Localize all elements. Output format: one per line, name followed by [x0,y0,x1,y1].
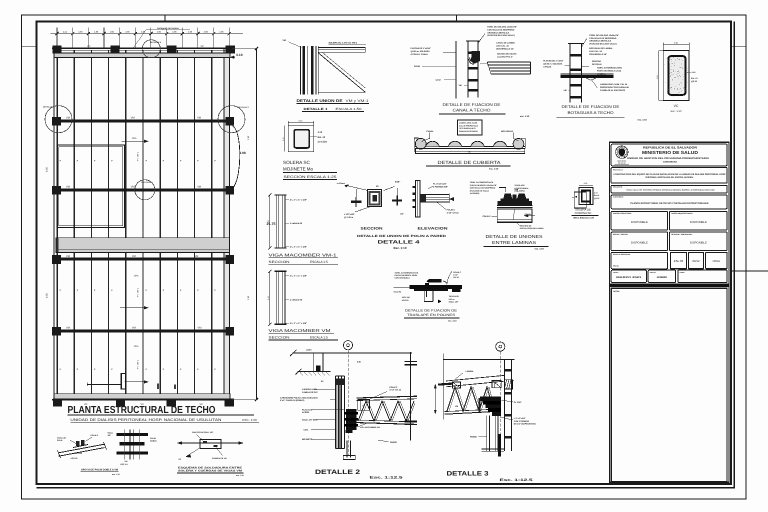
slope arrow and 10% upper [121,137,148,143]
svg-text:@0.60 m. SOLDADA: @0.60 m. SOLDADA [543,63,563,66]
svg-text:ESCALA 1:5: ESCALA 1:5 [310,260,328,264]
svg-text:CONTENIDO:: CONTENIDO: [613,196,624,199]
svg-text:@ 0.15m: @ 0.15m [318,141,327,144]
ubicacion thin box [611,185,727,193]
svg-text:SENTIDO DE: SENTIDO DE [520,224,532,227]
svg-text:POLIN: POLIN [414,65,421,68]
svg-text:ACERO: ACERO [302,411,310,414]
detalle 3 connection blob [479,396,502,415]
svg-text:MOJINETE Mo: MOJINETE Mo [283,167,313,172]
svg-text:CON 2 PERNOS: CON 2 PERNOS [514,420,530,423]
svg-text:1/4": 1/4" [400,212,404,215]
svg-text:SECCION: SECCION [361,226,384,230]
svg-text:0.15: 0.15 [299,119,303,122]
plan bottom small duct detail [87,373,176,389]
svg-text:PUNTA DE BROCA 12x24: PUNTA DE BROCA 12x24 [597,69,622,72]
detalle union VM y VM-1 drawing [301,46,366,94]
column squares beam row 3 [52,255,234,264]
detalle 3 roof slope lines [438,375,505,386]
detalle 3 notes [455,370,536,439]
detalle 3 axis line [499,351,501,455]
esquema soldadura title [177,466,244,477]
svg-text:4 PERNOS 3/8": 4 PERNOS 3/8" [433,186,448,189]
uniones laminas titles [484,234,549,251]
svg-text:CAL 26 PREPINTADA: CAL 26 PREPINTADA [459,124,479,127]
esquema soldadura drawing [177,435,243,458]
svg-text:DETALLE 5: DETALLE 5 [150,41,162,44]
svg-text:4"x2" CHAPA 16 (DOBLE): 4"x2" CHAPA 16 (DOBLE) [280,399,305,402]
svg-text:SOLERA SC a 2% min VM-1: SOLERA SC a 2% min VM-1 [329,42,358,45]
svg-text:PLANTA ESTRUCTURAL DE TECHO Y: PLANTA ESTRUCTURAL DE TECHO Y DETALLES E… [631,202,709,205]
svg-text:PUNTA DE BROCA 12x24x7/8": PUNTA DE BROCA 12x24x7/8" [470,184,497,187]
detalle 2 left parapet [296,353,331,375]
svg-text:ESL.03: ESL.03 [674,259,684,263]
svg-text:TORN. DE GOLOSO 12x24x7/8": TORN. DE GOLOSO 12x24x7/8" [589,34,619,37]
svg-text:CON ARANDELA: CON ARANDELA [395,277,411,280]
svg-text:ESCALA 1:50: ESCALA 1:50 [336,107,362,111]
fold mark top [455,15,457,23]
svg-text:VM: VM [125,460,128,463]
svg-text:SOLERA SC: SOLERA SC [283,160,311,165]
plan top dimension line [51,32,244,35]
uniones laminas top-right note [514,184,529,193]
esquema soldadura notes [179,431,227,461]
svg-text:0.25: 0.25 [674,41,678,44]
svg-text:0.19: 0.19 [236,53,243,57]
botaguas lower right note [592,81,629,93]
svg-text:PREPINTADA TIPO DURALUM: PREPINTADA TIPO DURALUM [600,86,629,89]
svg-text:BOTAGUAS A TECHO: BOTAGUAS A TECHO [568,110,614,115]
detalle 4 titles [357,234,447,250]
svg-text:REPUBLICA DE EL SALVADOR: REPUBLICA DE EL SALVADOR [643,146,698,150]
svg-text:APOYO: APOYO [71,457,78,460]
svg-text:COMUNIDAD: COMUNIDAD [663,161,677,164]
svg-text:NOTAS:: NOTAS: [613,290,620,293]
svg-text:LOSA: LOSA [306,349,312,352]
svg-text:(FIJACION EN CADA VALLE): (FIJACION EN CADA VALLE) [589,43,617,46]
svg-text:DETALLE DE FIJACION DE: DETALLE DE FIJACION DE [443,102,501,107]
svg-text:CANAL A TECHO: CANAL A TECHO [453,107,491,112]
VM beam row 1 [56,119,228,122]
svg-text:4"x2" CH 16: 4"x2" CH 16 [389,389,401,392]
svg-text:CON SELLO DE NEOPRENO: CON SELLO DE NEOPRENO [470,187,496,190]
svg-text:DE LAMINA: DE LAMINA [514,190,525,193]
svg-text:L 1/2"x1/8": L 1/2"x1/8" [344,213,355,216]
fold mark right mid [732,270,768,272]
svg-text:APOYO DE POLIN DOBLE A VM: APOYO DE POLIN DOBLE A VM [81,468,118,471]
svg-text:VM: VM [132,255,136,258]
svg-text:Est.#2: Est.#2 [594,194,599,197]
detalle 4 seccion cross left [351,197,362,207]
svg-text:LAMINA: LAMINA [466,370,474,373]
responsables row 1 [611,211,727,230]
svg-text:CARGADERO POLIN C ENCAJUELADO: CARGADERO POLIN C ENCAJUELADO [280,396,318,399]
svg-text:SOLERA Y CUERDAS DE VIGAS VM: SOLERA Y CUERDAS DE VIGAS VM [178,470,242,473]
detalle 2 bolt plate cluster [344,409,358,430]
title block separator bar [609,284,729,287]
svg-text:A POLIN: A POLIN [543,66,552,69]
solera SC titles [283,160,337,179]
svg-text:POLIN C: POLIN C [389,386,398,389]
ministry logo [615,146,630,164]
VC column section [663,50,689,100]
svg-text:2 L 1" x 1" x 1/8": 2 L 1" x 1" x 1/8" [290,322,307,325]
svg-text:@0.15: @0.15 [691,80,698,83]
svg-text:PL 4"x4"x1/4": PL 4"x4"x1/4" [433,183,447,186]
svg-text:DETALLE 1: DETALLE 1 [304,107,328,111]
svg-text:SIMILAR EXISTENTE: SIMILAR EXISTENTE [459,130,479,133]
svg-text:0.20: 0.20 [282,137,285,141]
inner room rectangle [57,145,125,228]
svg-text:SECC ESCALA 1:25: SECC ESCALA 1:25 [573,217,594,220]
svg-text:INSTALACION DE LAMINA: INSTALACION DE LAMINA [520,227,544,230]
svg-text:DETALLE UNION DE: DETALLE UNION DE [297,99,344,103]
svg-text:DETALLE 3: DETALLE 3 [447,470,490,477]
svg-text:O SIMILAR AL EXISTENTE: O SIMILAR AL EXISTENTE [600,89,626,92]
svg-text:LLUVIAS PVC 4": LLUVIAS PVC 4" [497,55,513,58]
proyecto box [611,168,727,184]
botaguas leader lines [564,39,587,93]
solera SC mojinete section [282,119,314,151]
detalle 3 title [447,470,533,482]
svg-text:TIPO DURALUM O: TIPO DURALUM O [459,127,476,130]
uniones laminas side notes [483,213,545,230]
dim 0.19 top right [230,53,242,58]
svg-text:DOBLE: DOBLE [150,440,157,443]
viga VM titles [269,328,339,340]
botaguas right notes [582,60,623,75]
svg-text:HOJA: HOJA [713,259,721,263]
svg-text:DISPONIBLE: DISPONIBLE [690,241,707,244]
svg-text:0.15: 0.15 [584,182,588,185]
viga VM leader notes [285,275,307,325]
svg-text:esc. 1:10: esc. 1:10 [520,115,530,118]
svg-text:Esc. 1:12.5: Esc. 1:12.5 [500,478,533,482]
detalle 3 mid box [492,380,501,387]
detalle 4 seccion cross right [392,196,402,206]
botaguas flashing bar [560,74,613,81]
plan top edge beam [52,48,232,57]
VM beam row 2 [56,188,228,191]
svg-text:NOMBRE: NOMBRE [657,276,668,279]
svg-text:DETALLE DE FIJACION DE: DETALLE DE FIJACION DE [562,104,620,109]
svg-text:esc. 1:10: esc. 1:10 [489,168,499,171]
svg-text:esc. 1:10: esc. 1:10 [535,248,545,251]
svg-text:PARED: PARED [470,436,477,439]
traslape notes [394,271,462,303]
detalle 2 title [315,469,403,480]
detalle 2 top slab line [290,350,412,356]
traslape titles [404,309,460,323]
svg-text:CUERDA DE VM: CUERDA DE VM [212,457,227,460]
column squares bottom edge [53,399,234,407]
solera SC side notes [309,131,327,144]
svg-text:VIGA MACOMBER VM: VIGA MACOMBER VM [360,426,380,429]
svg-text:VM: VM [197,117,201,120]
svg-text:4"x2" CH 16: 4"x2" CH 16 [447,212,460,215]
svg-text:TRASLAPE: TRASLAPE [514,184,525,187]
VC labels top edge [87,45,204,48]
canal a techo ladder [456,41,480,98]
solera sc small notes [594,192,599,200]
svg-text:@ 0.40 m: @ 0.40 m [344,216,353,219]
svg-text:esc. 1:10: esc. 1:10 [236,474,244,477]
svg-text:4 #3: 4 #3 [318,131,323,134]
svg-text:APOYO: APOYO [402,299,409,302]
svg-text:2 L 1" x 1" x 1/8": 2 L 1" x 1" x 1/8" [290,198,307,201]
traslape en polines drawing [394,271,463,303]
svg-text:DESARROLLO 18": DESARROLLO 18" [589,53,607,56]
svg-text:esc. 1:10: esc. 1:10 [112,473,120,476]
responsables row 2 [611,232,727,251]
detalle 3 callout circle [496,342,505,351]
svg-text:VIGA VM: VIGA VM [394,291,402,294]
VC titles [671,104,682,113]
detalle 3 lower column [481,416,503,457]
svg-text:VM: VM [131,117,135,120]
VM beam row 4 [56,329,228,332]
svg-text:VM: VM [194,255,198,258]
fold mark right [732,45,747,47]
plan left border wall [54,48,58,401]
svg-text:botaguas de lamina: botaguas de lamina [157,27,179,30]
svg-text:CANAL DE LAMINA: CANAL DE LAMINA [496,42,515,45]
svg-text:P = VM-1: P = VM-1 [137,287,140,297]
detalle 3 left end box [452,382,460,388]
svg-text:L 2"x2"x1/4": L 2"x2"x1/4" [514,417,526,420]
detalle 4 elevacion beam [420,193,454,203]
svg-text:VC: VC [87,45,91,48]
detalle 2 callout circle [343,341,352,350]
cubierta bottom band [416,149,525,154]
svg-text:PUNTOS DE SOLD. 1/8": PUNTOS DE SOLD. 1/8" [192,431,213,434]
svg-text:CORONA SC: CORONA SC [575,211,592,215]
cubierta side labels [422,130,519,142]
plan right border wall [224,48,230,401]
detalle uniones entre laminas drawing [497,194,533,223]
svg-text:6.05: 6.05 [45,293,48,298]
canal top right note [479,26,518,43]
svg-text:ALTERNO): ALTERNO) [470,192,480,195]
plan top extension lines [57,28,229,49]
svg-text:DE 1/2" (EXPANSIVOS): DE 1/2" (EXPANSIVOS) [514,423,536,426]
detalle 2 truss [357,396,418,424]
svg-text:@0.60 m. SOLDADA: @0.60 m. SOLDADA [411,50,431,53]
svg-text:PROYECTO:: PROYECTO: [613,168,623,171]
botaguas ladder [568,44,584,103]
uniones laminas top-left note [470,181,506,195]
svg-text:VM: VM [459,84,462,87]
plan top dimension texts [63,31,224,34]
detalle 2 main column [336,376,345,449]
solera sc small titles [572,207,599,219]
botaguas top right note [589,34,619,56]
svg-text:PLATINA DE 1"x3/16": PLATINA DE 1"x3/16" [411,47,431,50]
svg-text:DETALLE DE FIJACION DE: DETALLE DE FIJACION DE [405,309,457,313]
column squares beam row 4 [52,327,234,336]
svg-text:DETALLE 2: DETALLE 2 [238,106,250,109]
svg-text:CANAL: CANAL [426,130,434,133]
contenido box [611,195,727,209]
detail callout circle top [142,40,162,58]
svg-text:POLIN: POLIN [150,437,156,440]
detalle 3 left dim line [434,384,436,414]
plan title [68,405,255,416]
svg-text:SOLD. 1/8": SOLD. 1/8" [449,301,459,304]
escala fecha hoja row [611,252,727,268]
P labels on purlins [60,160,217,372]
svg-text:POLIN C: POLIN C [447,209,456,212]
svg-text:DISPONIBLE: DISPONIBLE [631,241,648,244]
detalle 3 right ladder [504,360,513,451]
svg-text:DETALLE DE UNION DE POLIN A PA: DETALLE DE UNION DE POLIN A PARED [357,234,447,238]
svg-text:SECCION ESCALA 1:25: SECCION ESCALA 1:25 [284,175,337,179]
svg-text:VIGA VM: VIGA VM [74,452,82,455]
svg-text:MINISTERIO DE SALUD: MINISTERIO DE SALUD [642,150,698,155]
svg-text:SOLD.: SOLD. [57,439,63,442]
canal right notes [496,42,517,59]
detail callout circle right [218,106,250,133]
detalle 3 truss zigzag [445,387,495,414]
column squares beam row 1 [52,117,234,126]
column squares beam row 2 [52,186,234,204]
svg-text:PLACA DE: PLACA DE [302,408,313,411]
svg-text:ESC 1:5: ESC 1:5 [121,463,128,466]
fold mark top left [164,15,166,23]
svg-text:DESARROLLO 24": DESARROLLO 24" [496,47,514,50]
svg-text:VM: VM [66,327,70,330]
detail callout circle left [43,106,72,133]
svg-text:DISPONIBLE: DISPONIBLE [631,221,648,224]
svg-text:VM: VM [564,89,567,92]
dim bracket 3.98 right side [233,126,246,189]
svg-text:VC: VC [674,104,679,108]
svg-text:P = VM-1: P = VM-1 [137,359,140,369]
svg-text:CON SELLO DE NEOPRENO: CON SELLO DE NEOPRENO [487,28,514,31]
svg-text:TRASLAPE: TRASLAPE [449,295,460,298]
svg-text:VM y VM-1: VM y VM-1 [346,99,369,103]
svg-text:4 #3: 4 #3 [594,192,598,195]
detalle 3 top line [443,354,514,420]
notas box [611,288,727,481]
svg-text:TRASLAPE EN POLINES: TRASLAPE EN POLINES [407,313,455,317]
svg-text:DISPONIBLE: DISPONIBLE [690,221,707,224]
plan subtitle [70,418,259,423]
svg-text:DETALLE 4: DETALLE 4 [378,239,421,245]
VC labels bottom edge [84,403,203,406]
svg-text:5/16": 5/16" [395,181,400,184]
plan bottom edge beam [52,394,232,400]
svg-text:VM: VM [132,327,136,330]
soldadura polin notes [108,431,158,466]
canal left note [411,47,457,56]
title block header box [611,144,727,166]
svg-text:BAJADA DE AGUAS: BAJADA DE AGUAS [497,53,517,56]
svg-text:CON SELLO DE NEOPRENO: CON SELLO DE NEOPRENO [589,37,616,40]
svg-text:POLIN C: POLIN C [483,215,492,218]
viga VM-1 titles [269,252,339,264]
svg-text:ENTRE LAMINAS: ENTRE LAMINAS [492,240,536,245]
svg-text:LAMINA ZINC ALUM.: LAMINA ZINC ALUM. [459,121,478,124]
VC dimension lines [656,41,689,100]
svg-text:CAMISA DE PVC: CAMISA DE PVC [302,391,318,394]
svg-text:VIGA MACOMBER VM: VIGA MACOMBER VM [269,328,332,333]
plan right dimension line 21.75 [232,47,276,401]
botaguas left note [543,60,570,69]
svg-text:(FIJACION EN VALLE: (FIJACION EN VALLE [470,189,490,192]
svg-text:BOTAGUAS DE LAMINA: BOTAGUAS DE LAMINA [589,47,613,50]
svg-text:VM: VM [66,186,70,189]
viga VM-1 leader notes [285,198,307,248]
svg-text:DETALLE 1: DETALLE 1 [141,181,153,184]
slope arrow lower [125,345,149,383]
title block outer frame [609,142,729,482]
svg-text:@0.15: @0.15 [594,197,599,200]
slope arrow mid [120,275,148,310]
svg-text:ARANDELA METALICA: ARANDELA METALICA [487,31,509,34]
svg-text:VIGA MACOMBER VM-1: VIGA MACOMBER VM-1 [269,252,338,257]
svg-text:0.60 m: 0.60 m [449,298,455,301]
svg-text:A POLIN Y CANAL: A POLIN Y CANAL [411,53,429,56]
svg-text:DETALLE 2: DETALLE 2 [315,469,361,476]
viga macomber VM section [267,270,286,326]
svg-text:Est. #2: Est. #2 [318,136,326,139]
VM labels [66,117,201,330]
detalle 2 right notes [358,386,402,444]
viga macomber VM-1 section [267,193,286,249]
svg-text:ANCLAJE: ANCLAJE [57,437,67,440]
cubierta spec box [458,120,483,135]
canal hanger blob [469,51,479,64]
svg-text:CH 16: CH 16 [453,276,458,279]
detalle 4 elevacion notes [428,183,459,215]
title block header text [627,146,709,164]
svg-text:ESC.: 1:50: ESC.: 1:50 [242,418,257,422]
svg-text:VM: VM [198,327,202,330]
detalle 4 seccion square [368,190,382,207]
svg-text:DE POLIN: DE POLIN [592,63,602,66]
svg-text:Est. #3: Est. #3 [691,77,698,80]
svg-text:FINAL CALLE DR. FEDERICO PENAD: FINAL CALLE DR. FEDERICO PENADO AVENIDA … [627,188,716,191]
left side rotated dims [45,135,250,300]
botaguas de lamina label [133,27,190,49]
svg-text:e=20mm: e=20mm [337,182,345,185]
svg-text:CONSTRUCCION DEL EQUIPO DE PLA: CONSTRUCCION DEL EQUIPO DE PLAN DE INSTA… [614,173,727,176]
canal small labels [414,65,468,87]
svg-text:2 L 1" x 1" x 1/8": 2 L 1" x 1" x 1/8" [290,246,307,249]
svg-text:BOTAGUAS: BOTAGUAS [501,130,513,133]
canal a techo titles [439,102,530,118]
svg-text:MOJINETE: MOJINETE [302,438,313,441]
svg-text:6.05: 6.05 [45,167,48,172]
detalle 2 bottom pin [343,430,355,460]
svg-text:VM: VM [455,405,458,408]
apoyo notes [57,434,99,460]
svg-text:TORN. AUTORROSCANTE: TORN. AUTORROSCANTE [470,181,494,184]
svg-text:VIGA VM: VIGA VM [402,296,410,299]
svg-text:DETALLE DE UNIONES: DETALLE DE UNIONES [486,234,543,239]
gray canal band across plan [56,238,229,253]
detalle 4 elevacion column [413,180,420,217]
fecha row [611,270,727,282]
detalle 2 center axis line [347,350,349,455]
svg-text:1 BARRA #4 EN: 1 BARRA #4 EN [302,388,317,391]
svg-text:PERITONEAL HOSPITALARIA DEL HO: PERITONEAL HOSPITALARIA DEL HOSPITAL NAC… [646,176,695,179]
svg-text:VM: VM [131,186,135,189]
svg-text:SECCION: SECCION [269,336,291,340]
detalle union top note [329,42,367,45]
svg-text:P = VM-1: P = VM-1 [137,151,140,161]
